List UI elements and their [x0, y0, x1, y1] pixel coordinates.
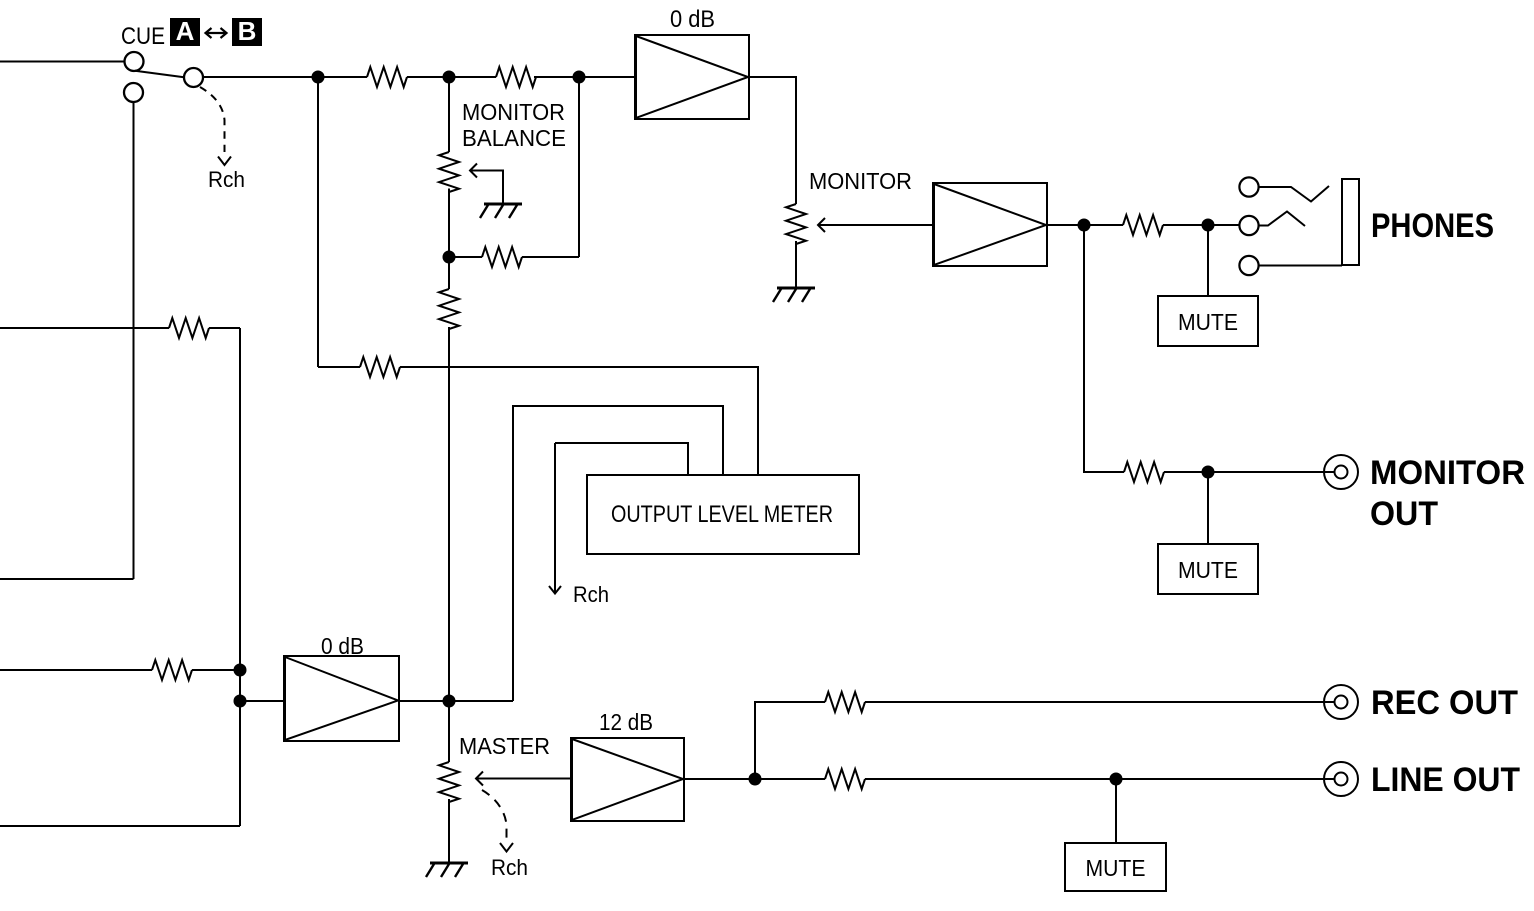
- svg-text:12 dB: 12 dB: [599, 709, 653, 735]
- wiper arrow of VR1: [470, 164, 477, 178]
- svg-text:Rch: Rch: [491, 855, 528, 880]
- wire R10 to LINE OUT jack: [865, 778, 1334, 780]
- wire U2 output to R5: [1047, 224, 1123, 226]
- node J4: [444, 252, 455, 263]
- ground (monitor pot): [773, 288, 815, 302]
- ground (balance wiper): [480, 204, 522, 218]
- block MUTE (phones): [1158, 296, 1258, 346]
- amplifier U3 0 dB (master L): [284, 656, 399, 741]
- svg-text:MUTE: MUTE: [1086, 855, 1146, 881]
- wiper arrow of VR3: [476, 772, 483, 786]
- wire VR1 wiper to ground: [471, 171, 503, 205]
- ground (master pot): [426, 863, 468, 877]
- svg-text:MUTE: MUTE: [1178, 309, 1238, 335]
- svg-text:A: A: [176, 16, 195, 46]
- wire R3 to vertical from J3: [522, 256, 579, 258]
- amplifier U1 0 dB (monitor L): [635, 35, 749, 119]
- wire R8 to node J6: [192, 669, 240, 671]
- potentiometer VR3 MASTER: [439, 762, 459, 802]
- svg-text:MASTER: MASTER: [459, 733, 550, 759]
- block MUTE (monitor out): [1158, 544, 1258, 594]
- RCA jack MONITOR OUT: [1324, 455, 1358, 489]
- CUE switch lever: [135, 71, 184, 77]
- wire to left edge at 579: [0, 578, 134, 580]
- node J2: [444, 72, 455, 83]
- wire: left input to CUE A contact: [0, 61, 124, 63]
- wire R5 to phones contact: [1163, 224, 1240, 226]
- wire J8 down to master pot: [448, 701, 450, 762]
- meter feed wire A (from bus J1): [318, 366, 360, 368]
- node J7: [235, 696, 246, 707]
- wire: left input via R8 to mix node: [0, 669, 152, 671]
- wire J7 to amplifier U3: [240, 700, 284, 702]
- node J8: [444, 696, 455, 707]
- resistor R8: [152, 660, 192, 680]
- RCA jack REC OUT: [1324, 685, 1358, 719]
- resistor R4: [439, 289, 459, 329]
- wire VR2 wiper to amplifier U2: [819, 224, 933, 226]
- wire R1 to R2: [407, 76, 496, 78]
- CUE switch common contact: [184, 68, 203, 87]
- double arrow between A and B: [206, 32, 226, 34]
- resistor R11 (REC OUT): [825, 692, 865, 712]
- potentiometer VR2 MONITOR (element): [786, 204, 806, 244]
- svg-text:REC OUT: REC OUT: [1371, 684, 1518, 722]
- vertical wire J1 down to meter bus: [317, 77, 319, 367]
- vertical wire J2 down to balance pot: [448, 77, 450, 152]
- wire J4 to R3: [449, 256, 482, 258]
- meter feed wire C (Rch): [555, 443, 688, 475]
- node J3: [574, 72, 585, 83]
- amplifier U4 12 dB: [571, 738, 684, 821]
- dashed Rch arrow at master pot: [482, 790, 507, 840]
- resistor R7: [169, 318, 209, 338]
- block MUTE (line out): [1065, 843, 1166, 891]
- wire U4 output to R10: [684, 778, 825, 780]
- phones jack sleeve wire: [1259, 265, 1342, 267]
- wire R7 to vertical bus: [209, 327, 240, 329]
- resistor R2: [496, 67, 536, 87]
- svg-text:PHONES: PHONES: [1371, 207, 1494, 245]
- wire J11 to MUTE1: [1207, 225, 1209, 296]
- resistor R5: [1123, 215, 1163, 235]
- wire: switch common to amplifier U1 input: [203, 76, 367, 78]
- resistor R1: [367, 67, 407, 87]
- node J5: [1079, 220, 1090, 231]
- node J1: [313, 72, 324, 83]
- CUE position A badge: [170, 16, 200, 46]
- wire R6 to MONITOR OUT jack: [1164, 471, 1334, 473]
- node J9: [750, 774, 761, 785]
- svg-text:OUT: OUT: [1370, 495, 1438, 533]
- resistor R6: [1124, 462, 1164, 482]
- amplifier U2 (headphone): [933, 183, 1047, 266]
- wiper arrow of VR2: [818, 218, 825, 232]
- wire J5 down to monitor out: [1084, 225, 1124, 472]
- svg-text:MONITOR: MONITOR: [809, 168, 912, 194]
- wire J10 to MUTE3: [1115, 779, 1117, 843]
- vertical wire J3 down: [578, 77, 580, 257]
- CUE switch contact A: [125, 52, 144, 71]
- wire VR3 to ground: [448, 799, 450, 863]
- wire bus bottom to left edge: [0, 825, 240, 827]
- node J6: [235, 665, 246, 676]
- potentiometer VR1 MONITOR BALANCE: [439, 152, 459, 192]
- Rch arrow line to meter: [554, 443, 556, 592]
- svg-text:MUTE: MUTE: [1178, 557, 1238, 583]
- phones jack contact top: [1239, 177, 1258, 196]
- wire VR1 to node J4: [448, 189, 450, 258]
- wire VR3 wiper to amplifier U4: [477, 778, 571, 780]
- wire pot to ground: [795, 241, 797, 288]
- dashed Rch arrow at CUE switch: [200, 87, 225, 152]
- node J11: [1203, 220, 1214, 231]
- svg-text:CUE: CUE: [121, 23, 165, 50]
- svg-text:MONITOR: MONITOR: [462, 99, 565, 125]
- wire: left input L ch via R7 to mix node: [0, 327, 169, 329]
- phones jack mid spring contact: [1259, 212, 1305, 227]
- vertical mix bus wire: [239, 328, 241, 826]
- resistor R10 (LINE OUT): [825, 769, 865, 789]
- node J12: [1203, 467, 1214, 478]
- wire U3 output to meter tap: [399, 700, 513, 702]
- wire U1 output down to monitor level pot: [749, 77, 796, 204]
- node J10: [1111, 774, 1122, 785]
- svg-text:Rch: Rch: [573, 582, 609, 607]
- svg-text:LINE OUT: LINE OUT: [1371, 761, 1520, 799]
- svg-text:B: B: [238, 16, 257, 46]
- svg-text:0 dB: 0 dB: [321, 633, 364, 659]
- resistor R9: [360, 357, 400, 377]
- wire R11 to REC OUT jack: [865, 701, 1334, 703]
- CUE switch contact B: [124, 83, 143, 102]
- wire J12 to MUTE2: [1207, 472, 1209, 544]
- vertical wire R4 down to node J8: [448, 327, 450, 701]
- RCA jack LINE OUT: [1324, 762, 1358, 796]
- phones jack body: [1342, 179, 1359, 265]
- svg-text:BALANCE: BALANCE: [462, 125, 566, 151]
- phones jack top spring contact: [1259, 186, 1329, 202]
- resistor R3: [482, 247, 522, 267]
- CUE position B badge: [232, 16, 262, 46]
- svg-text:0 dB: 0 dB: [670, 6, 715, 33]
- wire R2 to U1: [534, 76, 635, 78]
- svg-text:OUTPUT LEVEL METER: OUTPUT LEVEL METER: [611, 501, 833, 528]
- block OUTPUT LEVEL METER: [587, 475, 859, 554]
- phones jack contact bottom: [1239, 256, 1258, 275]
- wire R9 to meter: [400, 367, 758, 475]
- svg-text:Rch: Rch: [208, 167, 245, 192]
- vertical wire from CUE B contact: [133, 102, 135, 579]
- phones jack contact mid: [1239, 216, 1258, 235]
- meter feed wire B (from master out): [513, 406, 723, 701]
- wire J9 up to REC branch: [755, 702, 825, 779]
- svg-text:MONITOR: MONITOR: [1370, 454, 1525, 492]
- wire J4 down to R4: [448, 257, 450, 289]
